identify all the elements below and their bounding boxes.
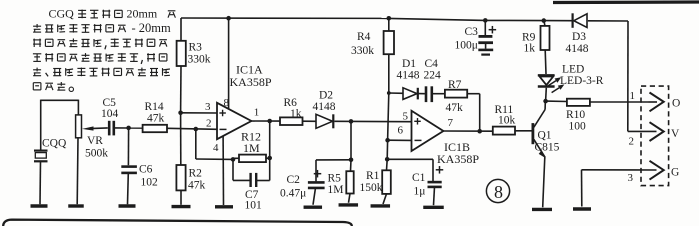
capacitor C7 101 xyxy=(233,159,270,211)
svg-text:2: 2 xyxy=(206,118,212,130)
svg-text:O: O xyxy=(672,98,680,110)
capacitor C3 100u xyxy=(455,20,497,51)
ground R2 xyxy=(172,205,191,208)
ground C6 xyxy=(119,204,136,207)
svg-text:C1: C1 xyxy=(412,172,426,184)
ground VR xyxy=(68,204,84,207)
svg-text:330k: 330k xyxy=(188,54,211,66)
svg-text:- 20mm: - 20mm xyxy=(132,21,172,35)
svg-text:LED: LED xyxy=(562,64,584,76)
net V label xyxy=(671,128,680,140)
node pin2-feedback junction xyxy=(194,127,199,132)
node output-R6-feedback junction xyxy=(267,119,272,124)
ground R5 xyxy=(339,203,359,206)
node pin6 junction xyxy=(385,138,390,143)
resistor R10 100 xyxy=(546,99,649,133)
svg-text:R5: R5 xyxy=(328,173,342,185)
svg-text:R14: R14 xyxy=(145,101,164,113)
wire top supply rail xyxy=(181,18,628,21)
resistor R1 150k xyxy=(360,159,391,204)
wire pin3 bias xyxy=(181,112,217,114)
svg-text:47k: 47k xyxy=(147,113,165,125)
piezo transducer CQQ xyxy=(34,138,67,205)
svg-text:4148: 4148 xyxy=(313,101,336,113)
svg-text:R10: R10 xyxy=(566,109,585,121)
node C5-C6 junction xyxy=(126,126,131,131)
ground C2 xyxy=(304,205,323,208)
connector J1 socket xyxy=(641,86,669,186)
wire pin6 to op-amp xyxy=(388,139,412,141)
decor bottom frame xyxy=(3,220,352,228)
wire feedback right drop xyxy=(269,121,271,181)
svg-text:6: 6 xyxy=(398,125,404,137)
resistor R14 47k xyxy=(143,101,217,132)
wire pin6-C1 vertical xyxy=(386,140,388,159)
resistor R11 10k xyxy=(493,104,532,135)
svg-text:0.47μ: 0.47μ xyxy=(280,188,306,200)
pin 2 label xyxy=(629,136,635,148)
wire G ground line xyxy=(582,170,657,207)
svg-text:C3: C3 xyxy=(465,26,479,38)
resistor R9 1k xyxy=(522,21,550,74)
svg-text:4148: 4148 xyxy=(566,43,589,55)
resistor R5 1M xyxy=(328,160,354,203)
ground Q1 xyxy=(532,208,552,211)
svg-text:R2: R2 xyxy=(189,168,203,180)
node R12-C7 left junction xyxy=(231,157,236,162)
svg-text:VR: VR xyxy=(87,135,103,147)
svg-text:1: 1 xyxy=(254,107,259,119)
svg-text:Q1: Q1 xyxy=(538,130,552,142)
resistor R6 1k xyxy=(280,97,316,125)
net G label xyxy=(671,167,679,179)
op-amp U1A IC1A KA358P xyxy=(205,63,272,155)
ground C1 xyxy=(423,206,444,209)
node rail-R9 junction xyxy=(542,18,547,23)
node R3-R2-pin3 junction xyxy=(178,111,183,116)
svg-text:CGQ: CGQ xyxy=(49,7,75,21)
wire IC1A output xyxy=(251,120,280,122)
node LED-R10-Q1 junction xyxy=(543,99,548,104)
svg-text:D3: D3 xyxy=(572,31,586,43)
svg-text:4: 4 xyxy=(213,142,219,154)
svg-text:R3: R3 xyxy=(189,42,203,54)
ground G pin xyxy=(573,207,591,210)
potentiometer VR 500k xyxy=(76,115,109,204)
svg-text:3: 3 xyxy=(628,172,634,184)
pin 1 label xyxy=(630,90,636,102)
svg-text:G: G xyxy=(671,167,679,179)
node R12 right junction xyxy=(267,156,272,161)
node R4-D1 junction xyxy=(387,91,391,95)
svg-text:224: 224 xyxy=(424,70,442,82)
node rail-R4 junction xyxy=(387,16,392,21)
svg-text:20mm: 20mm xyxy=(127,7,158,21)
svg-text:C6: C6 xyxy=(139,164,153,176)
wire R7 to output xyxy=(479,94,481,132)
node rail-C3 junction xyxy=(483,18,488,23)
ground C3 xyxy=(478,50,493,55)
ground IC1A pin4 xyxy=(215,205,233,208)
capacitor C5 104 xyxy=(101,97,143,135)
wire feedback tap xyxy=(196,129,233,159)
diode D1 4148 xyxy=(389,58,420,99)
svg-text:7: 7 xyxy=(448,117,454,129)
svg-text:R4: R4 xyxy=(357,31,371,43)
svg-text:47k: 47k xyxy=(446,102,464,114)
LED LED-3-R xyxy=(538,64,604,102)
svg-text:1μ: 1μ xyxy=(414,186,426,198)
wire IC1B output xyxy=(443,130,492,132)
resistor R7 47k xyxy=(445,79,480,114)
svg-text:LED-3-R: LED-3-R xyxy=(560,75,604,87)
resistor R4 330k xyxy=(351,18,394,93)
svg-text:1k: 1k xyxy=(290,108,302,120)
figure number 8 xyxy=(486,179,509,202)
svg-text:1k: 1k xyxy=(524,43,536,55)
wire pin6 vertical xyxy=(388,93,389,140)
ground R1 xyxy=(371,204,391,207)
svg-text:2: 2 xyxy=(629,136,635,148)
svg-text:V: V xyxy=(671,128,680,140)
decor rule xyxy=(553,0,699,4)
svg-text:3: 3 xyxy=(205,101,211,113)
wire piezo-to-pot top xyxy=(41,100,79,150)
resistor R12 1M xyxy=(233,130,270,163)
svg-text:4148: 4148 xyxy=(397,70,420,82)
op-amp U1B IC1B KA358P xyxy=(398,111,480,167)
diode D3 4148 xyxy=(566,13,589,55)
svg-text:102: 102 xyxy=(141,177,159,189)
svg-text:101: 101 xyxy=(245,200,263,212)
svg-text:47k: 47k xyxy=(188,180,206,192)
capacitor C4 224 xyxy=(419,58,445,102)
pin 3 label xyxy=(628,172,634,184)
svg-text:150k: 150k xyxy=(360,182,383,194)
svg-text:KA358P: KA358P xyxy=(437,152,479,166)
svg-text:1M: 1M xyxy=(243,141,260,155)
node R5 top junction xyxy=(349,158,354,163)
svg-text:C4: C4 xyxy=(425,58,439,70)
node rail-pin8 junction xyxy=(226,16,231,21)
resistor R2 47k xyxy=(176,113,205,205)
svg-text:C815: C815 xyxy=(535,142,560,154)
svg-text:D2: D2 xyxy=(319,90,333,102)
svg-text:D1: D1 xyxy=(402,58,416,70)
resistor R3 330k xyxy=(177,18,211,113)
wire pin4 ground xyxy=(222,136,224,205)
net O label xyxy=(672,98,680,110)
ground piezo xyxy=(31,204,48,207)
svg-text:R7: R7 xyxy=(448,79,462,91)
svg-text:CQQ: CQQ xyxy=(42,138,67,150)
wire V supply drop xyxy=(628,21,657,131)
svg-text:100μ: 100μ xyxy=(455,40,478,52)
capacitor C6 102 xyxy=(121,128,158,204)
wire C2-R5 branch xyxy=(316,121,351,159)
svg-text:104: 104 xyxy=(101,108,119,120)
wire pin8 supply xyxy=(228,18,230,109)
svg-text:1: 1 xyxy=(630,90,636,102)
svg-text:500k: 500k xyxy=(85,148,108,160)
node C1 branch junction xyxy=(385,157,390,162)
svg-text:10k: 10k xyxy=(498,115,516,127)
svg-text:R1: R1 xyxy=(366,170,380,182)
node D2-C2 junction xyxy=(349,119,354,124)
capacitor C2 0.47u xyxy=(280,160,325,205)
svg-text:1M: 1M xyxy=(328,184,344,196)
transistor Q1 C815 xyxy=(533,101,560,207)
capacitor C1 1u xyxy=(387,159,443,205)
description text block xyxy=(33,7,176,92)
svg-text:C2: C2 xyxy=(287,174,301,186)
svg-text:5: 5 xyxy=(403,111,409,123)
node output-R7 junction xyxy=(477,129,482,134)
svg-text:KA358P: KA358P xyxy=(230,75,272,89)
svg-text:100: 100 xyxy=(569,121,587,133)
svg-text:330k: 330k xyxy=(351,45,374,57)
diode D2 4148 xyxy=(313,90,412,129)
svg-text:8: 8 xyxy=(494,182,503,202)
